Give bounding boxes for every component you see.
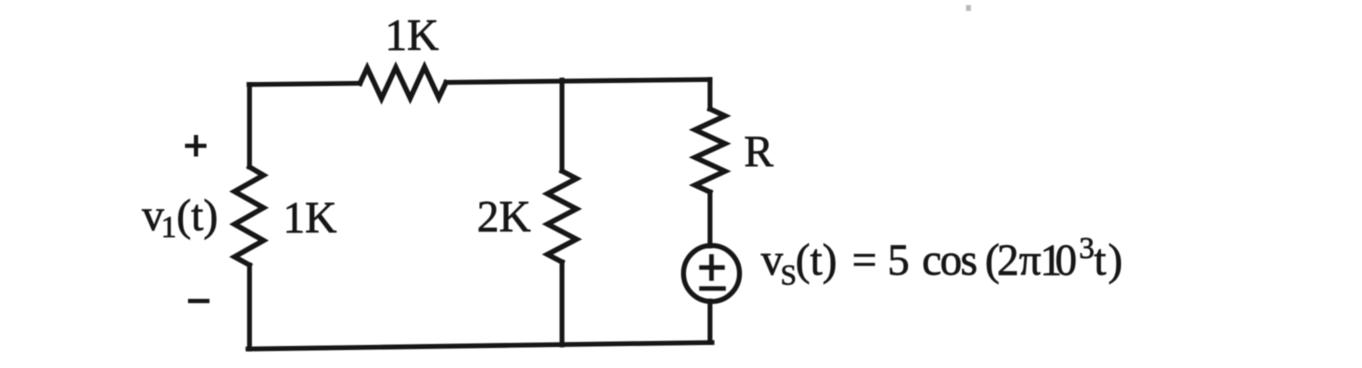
resistor left 1K (vertical zigzag): [235, 167, 264, 265]
wire top horizontal (right of 1K to right branch): [446, 80, 710, 83]
svg-text:π: π: [1019, 236, 1041, 285]
svg-text:1K: 1K: [385, 11, 439, 60]
svg-text:): ): [1108, 236, 1123, 285]
voltage source VS circle: [684, 246, 740, 302]
svg-text:R: R: [744, 127, 774, 176]
wire bottom horizontal: [248, 343, 712, 350]
svg-text:1K: 1K: [283, 193, 337, 242]
svg-text:=: =: [852, 236, 877, 285]
wire left vertical upper segment: [247, 85, 252, 168]
svg-text:(t): (t): [796, 236, 838, 285]
speck artifact top: [966, 5, 971, 11]
voltage source minus bar: [702, 286, 724, 291]
svg-text:2K: 2K: [477, 192, 531, 241]
resistor R (vertical zigzag): [695, 109, 725, 192]
svg-text:cos: cos: [922, 236, 977, 285]
svg-text:t: t: [1094, 236, 1106, 285]
svg-text:(t): (t): [177, 191, 219, 240]
wire middle vertical lower segment: [560, 262, 565, 345]
svg-text:0: 0: [1055, 236, 1077, 285]
svg-text:S: S: [781, 260, 797, 292]
resistor 2K (vertical zigzag): [548, 171, 577, 262]
wire right vertical between R and source: [708, 192, 713, 246]
wire right vertical lower segment: [708, 301, 713, 343]
wire right vertical upper segment: [708, 80, 713, 110]
wire middle vertical upper segment: [560, 80, 565, 171]
wire left vertical lower segment: [247, 265, 252, 349]
voltage source plus sign vertical bar: [709, 257, 714, 279]
resistor R top 1K (horizontal zigzag): [360, 67, 446, 99]
label - (polarity minus of v1): [188, 299, 210, 303]
wire top-left horizontal (node top, left segment): [249, 83, 360, 84]
svg-text:3: 3: [1079, 230, 1095, 265]
svg-text:2: 2: [997, 236, 1019, 285]
voltage source plus sign horizontal bar: [702, 265, 723, 270]
svg-text:5: 5: [888, 236, 910, 285]
label + (polarity plus of v1): [185, 135, 207, 157]
svg-text:1: 1: [161, 209, 177, 244]
